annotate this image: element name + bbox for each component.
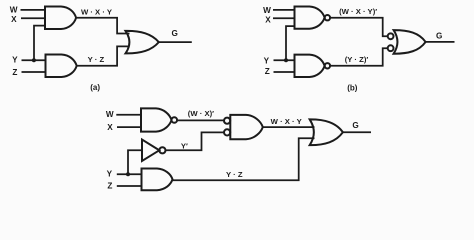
svg-text:W: W — [106, 110, 114, 119]
svg-text:Z: Z — [265, 67, 270, 76]
svg-text:(a): (a) — [90, 83, 100, 92]
svg-text:(W · X)′: (W · X)′ — [188, 109, 214, 118]
svg-text:X: X — [107, 123, 113, 132]
svg-text:Z: Z — [12, 68, 17, 77]
svg-text:Y · Z: Y · Z — [226, 170, 243, 179]
svg-text:G: G — [436, 31, 442, 40]
svg-text:Y: Y — [107, 170, 113, 179]
svg-text:W · X · Y: W · X · Y — [271, 117, 302, 126]
svg-text:G: G — [352, 121, 358, 130]
svg-text:Y · Z: Y · Z — [88, 55, 105, 64]
svg-text:Z: Z — [107, 181, 112, 190]
svg-text:X: X — [265, 16, 271, 25]
svg-text:(W · X · Y)′: (W · X · Y)′ — [339, 7, 377, 16]
svg-text:W: W — [263, 6, 271, 15]
svg-text:Y: Y — [264, 56, 270, 65]
svg-text:(b): (b) — [347, 83, 358, 92]
svg-text:Y′: Y′ — [181, 141, 188, 150]
svg-text:Y: Y — [12, 55, 18, 64]
svg-text:W: W — [10, 6, 18, 15]
svg-text:(Y · Z)′: (Y · Z)′ — [345, 55, 369, 64]
svg-text:G: G — [172, 29, 178, 38]
svg-text:X: X — [11, 15, 17, 24]
svg-text:W · X · Y: W · X · Y — [81, 7, 112, 16]
